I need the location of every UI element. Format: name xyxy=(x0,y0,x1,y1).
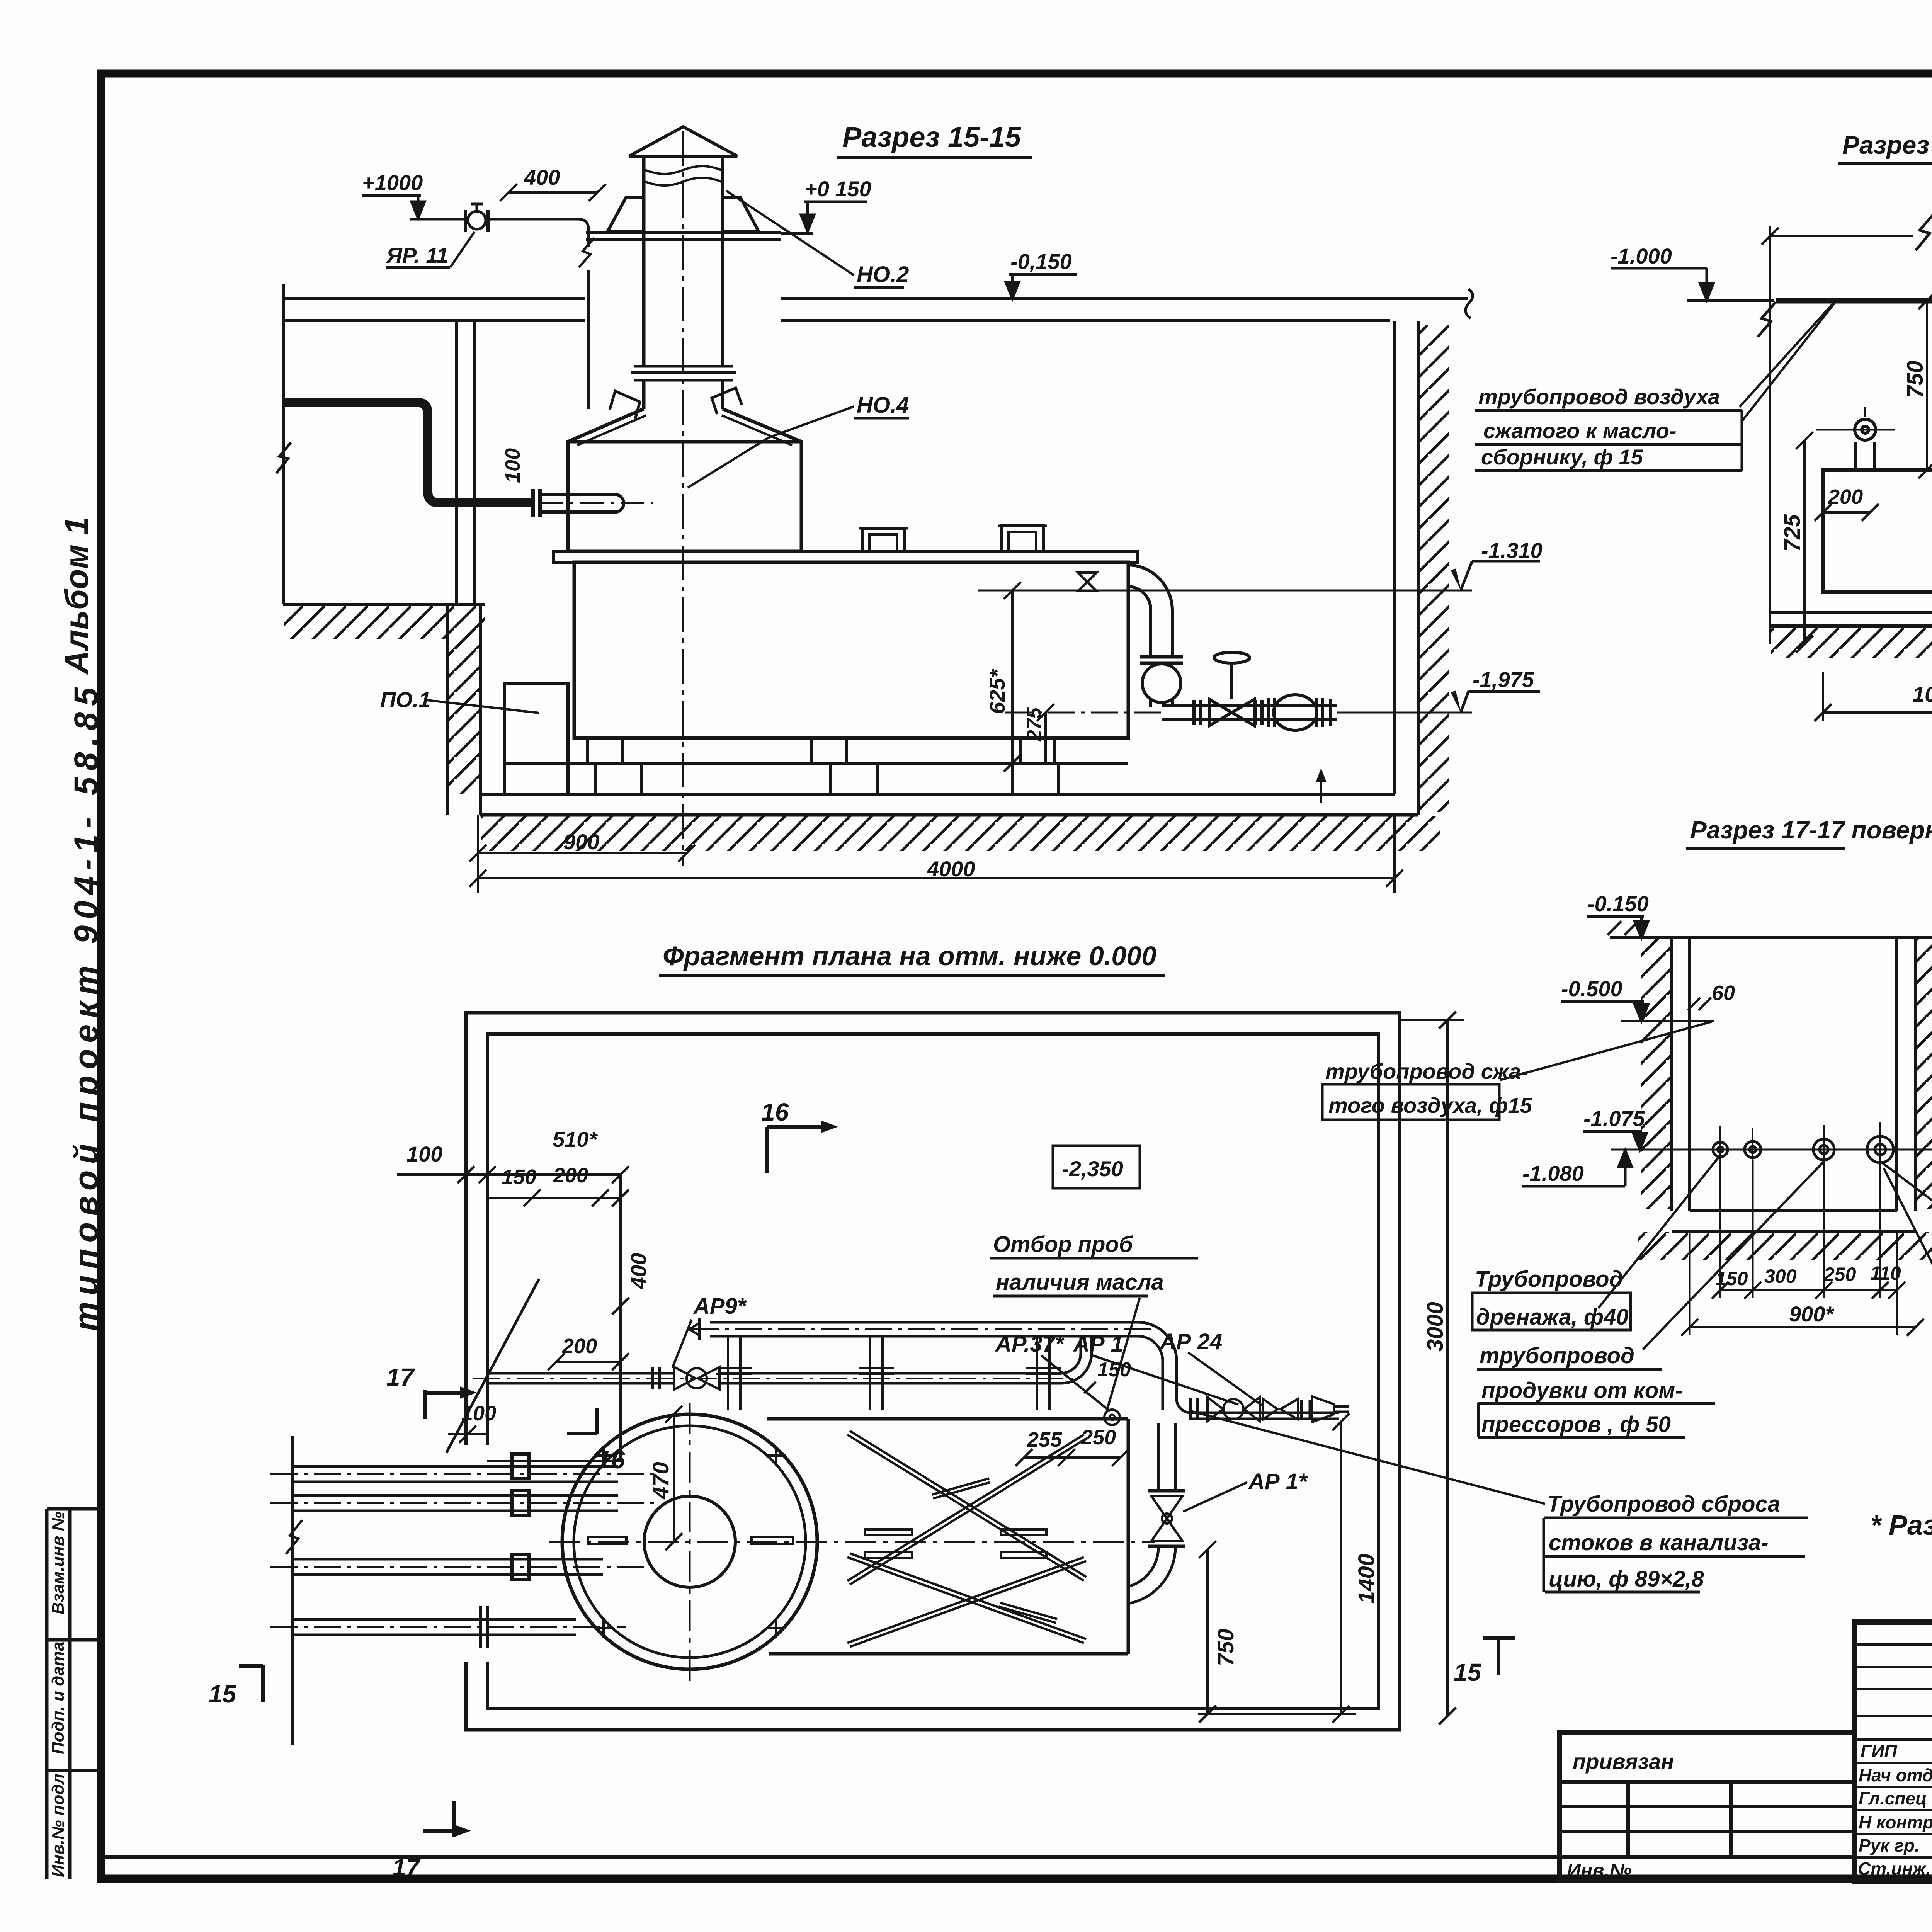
svg-text:сжатого к масло-: сжатого к масло- xyxy=(1483,418,1677,443)
svg-text:725: 725 xyxy=(1780,514,1805,552)
svg-text:-1.080: -1.080 xyxy=(1522,1161,1584,1185)
svg-text:150: 150 xyxy=(1716,1268,1748,1289)
svg-text:15: 15 xyxy=(1454,1658,1482,1686)
svg-text:трубопровод сжа-: трубопровод сжа- xyxy=(1325,1059,1528,1083)
svg-text:Гл.спец: Гл.спец xyxy=(1859,1788,1927,1808)
svg-text:+0 150: +0 150 xyxy=(804,177,871,201)
svg-text:275: 275 xyxy=(1023,707,1046,742)
svg-text:АР.37*: АР.37* xyxy=(995,1332,1065,1357)
svg-text:Разрез 17-17 повернуто: Разрез 17-17 повернуто xyxy=(1690,816,1932,844)
svg-text:наличия масла: наличия масла xyxy=(996,1270,1164,1295)
svg-text:100: 100 xyxy=(501,448,524,483)
svg-text:Рук гр.: Рук гр. xyxy=(1859,1835,1920,1855)
svg-text:1400: 1400 xyxy=(1354,1554,1379,1604)
svg-text:ГИП: ГИП xyxy=(1861,1741,1897,1761)
svg-text:Отбор проб: Отбор проб xyxy=(993,1232,1134,1257)
svg-text:Подп. и дата: Подп. и дата xyxy=(49,1642,68,1754)
svg-text:150: 150 xyxy=(502,1165,536,1189)
svg-text:НО.4: НО.4 xyxy=(857,393,909,418)
svg-text:-1.000: -1.000 xyxy=(1611,244,1672,268)
svg-text:255: 255 xyxy=(1027,1428,1062,1451)
svg-text:Разрез 16-16 повернута: Разрез 16-16 повернута xyxy=(1842,131,1932,159)
svg-text:типовой проект 904-1- 58.85: типовой проект 904-1- 58.85 xyxy=(68,681,105,1331)
svg-text:900*: 900* xyxy=(1789,1302,1834,1326)
svg-text:-1.310: -1.310 xyxy=(1481,538,1543,563)
svg-text:17: 17 xyxy=(386,1363,415,1391)
svg-text:продувки от ком-: продувки от ком- xyxy=(1481,1378,1683,1403)
svg-text:АР 1*: АР 1* xyxy=(1248,1469,1308,1494)
svg-text:Н контр.: Н контр. xyxy=(1859,1812,1932,1832)
svg-text:стоков в канализа-: стоков в канализа- xyxy=(1549,1530,1769,1555)
svg-text:Инв.№: Инв.№ xyxy=(1567,1860,1632,1881)
svg-text:110: 110 xyxy=(1870,1262,1901,1284)
svg-text:Разрез 15-15: Разрез 15-15 xyxy=(842,121,1022,153)
svg-text:200: 200 xyxy=(562,1335,597,1358)
svg-text:Взам.инв №: Взам.инв № xyxy=(49,1512,68,1614)
svg-text:трубопровод: трубопровод xyxy=(1480,1343,1634,1368)
svg-text:Нач отд: Нач отд xyxy=(1859,1765,1932,1785)
svg-text:НО.2: НО.2 xyxy=(857,262,909,287)
svg-text:4000: 4000 xyxy=(927,857,975,881)
svg-text:625*: 625* xyxy=(985,669,1009,714)
svg-text:400: 400 xyxy=(626,1253,651,1289)
svg-text:15: 15 xyxy=(209,1680,237,1708)
svg-text:Ст.инж.: Ст.инж. xyxy=(1858,1859,1931,1879)
svg-text:ЯР. 11: ЯР. 11 xyxy=(386,243,448,267)
svg-text:400: 400 xyxy=(524,165,560,189)
svg-text:Трубопровод сброса: Трубопровод сброса xyxy=(1547,1492,1780,1517)
svg-text:* Размеры для справок.: * Размеры для справок. xyxy=(1870,1510,1932,1541)
svg-text:100: 100 xyxy=(406,1142,442,1166)
svg-text:АР9*: АР9* xyxy=(693,1294,747,1319)
svg-text:Трубопровод: Трубопровод xyxy=(1475,1267,1623,1292)
svg-text:16: 16 xyxy=(761,1098,789,1126)
svg-text:1010*: 1010* xyxy=(1913,682,1932,706)
svg-text:750: 750 xyxy=(1903,361,1928,398)
svg-text:-1,975: -1,975 xyxy=(1473,667,1534,692)
svg-text:того воздуха, ф15: того воздуха, ф15 xyxy=(1328,1093,1532,1117)
svg-text:АР 1: АР 1 xyxy=(1073,1332,1123,1357)
svg-text:300: 300 xyxy=(1764,1265,1797,1287)
svg-text:сборнику, ф 15: сборнику, ф 15 xyxy=(1481,445,1643,469)
svg-text:60: 60 xyxy=(1712,981,1735,1005)
svg-text:Фрагмент плана на отм. ниже 0.: Фрагмент плана на отм. ниже 0.000 xyxy=(663,941,1156,971)
svg-text:-0,150: -0,150 xyxy=(1010,249,1072,274)
svg-text:510*: 510* xyxy=(553,1127,598,1151)
svg-text:900: 900 xyxy=(563,830,599,854)
svg-text:Инв.№ подл: Инв.№ подл xyxy=(49,1774,68,1877)
svg-text:АР 24: АР 24 xyxy=(1159,1329,1222,1354)
svg-text:привязан: привязан xyxy=(1573,1749,1674,1774)
svg-text:трубопровод воздуха: трубопровод воздуха xyxy=(1478,384,1720,409)
svg-text:200: 200 xyxy=(1828,485,1863,509)
svg-text:цию, ф 89×2,8: цию, ф 89×2,8 xyxy=(1549,1566,1704,1592)
svg-text:дренажа, ф40: дренажа, ф40 xyxy=(1476,1304,1629,1330)
svg-text:Альбом 1: Альбом 1 xyxy=(58,517,95,675)
svg-text:470: 470 xyxy=(648,1462,673,1500)
svg-text:-2,350: -2,350 xyxy=(1062,1156,1123,1181)
svg-text:17: 17 xyxy=(392,1854,421,1881)
svg-text:-0.150: -0.150 xyxy=(1587,891,1649,916)
svg-text:-1.075: -1.075 xyxy=(1583,1106,1645,1131)
svg-text:250: 250 xyxy=(1081,1426,1116,1449)
svg-text:750: 750 xyxy=(1213,1629,1238,1666)
svg-text:250: 250 xyxy=(1823,1264,1856,1285)
svg-text:прессоров , ф 50: прессоров , ф 50 xyxy=(1481,1412,1671,1437)
svg-text:-0.500: -0.500 xyxy=(1561,976,1622,1001)
svg-text:ПО.1: ПО.1 xyxy=(380,687,431,712)
svg-text:3000: 3000 xyxy=(1423,1302,1448,1352)
svg-text:+1000: +1000 xyxy=(362,170,423,195)
